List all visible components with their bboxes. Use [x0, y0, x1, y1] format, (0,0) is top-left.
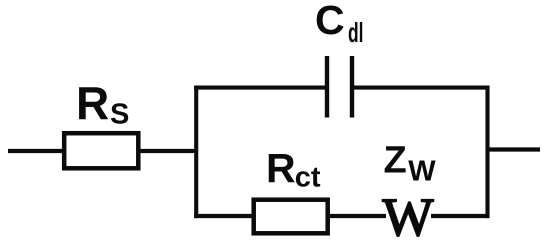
capacitor C_dl	[327, 56, 352, 118]
wire: right output lead	[488, 147, 541, 151]
svg-text:dl: dl	[348, 17, 364, 48]
wire: top rail left segment	[194, 86, 325, 90]
wire: R_S to left node	[138, 149, 198, 153]
label R_ct	[266, 145, 321, 194]
svg-text:Z: Z	[384, 140, 407, 182]
wire: R_ct to Warburg	[330, 214, 386, 218]
svg-text:S: S	[110, 99, 129, 131]
svg-text:R: R	[76, 77, 109, 129]
wire: right branch vertical	[485, 86, 489, 219]
label R_S	[76, 77, 129, 131]
resistor R_S	[64, 133, 138, 168]
svg-text:ct: ct	[295, 162, 321, 194]
label Z_W	[384, 140, 437, 188]
svg-text:W: W	[408, 156, 436, 188]
wire: left input lead	[8, 149, 66, 153]
wire: Warburg to right rail	[431, 214, 490, 218]
resistor R_ct	[254, 200, 328, 234]
svg-text:W: W	[383, 187, 434, 242]
svg-text:C: C	[315, 0, 345, 43]
wire: left branch vertical	[194, 86, 198, 219]
wire: bottom rail left segment	[194, 214, 254, 218]
wire: top rail right segment	[354, 86, 490, 90]
label C_dl	[315, 0, 364, 48]
svg-text:R: R	[266, 145, 296, 191]
